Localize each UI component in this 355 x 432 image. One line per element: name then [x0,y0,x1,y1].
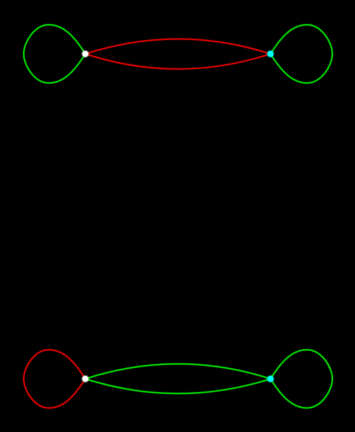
node 1 (top-left, white) [81,50,89,58]
wire: bottom-left red self-loop [24,350,86,408]
wire: top red lower edge [85,54,270,69]
wire: bottom-right green self-loop [271,350,333,408]
wire: top-right green self-loop [271,25,333,83]
node 3 (bottom-left, white) [81,375,89,383]
node 2 (top-right, cyan) [266,50,274,58]
wire: top-left green self-loop [24,25,86,83]
wire: top red upper edge [85,39,270,54]
wire: bottom green lower edge [85,379,270,394]
wire: bottom green upper edge [85,364,270,379]
node 4 (bottom-right, cyan) [266,375,274,383]
